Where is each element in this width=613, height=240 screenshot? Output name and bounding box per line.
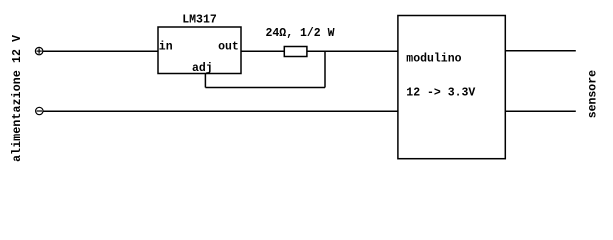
wire: adj pin drop [204, 74, 206, 88]
regulator U1 LM317 body [158, 27, 241, 74]
wire: resistor R1 to modulino [307, 50, 398, 52]
terminal - negative supply [36, 107, 43, 114]
svg-text:sensore: sensore [587, 70, 600, 118]
wire bottom: - terminal to modulino [43, 110, 398, 112]
wire: adj horizontal run [205, 87, 325, 89]
wire right top: modulino to sensore [505, 50, 576, 52]
svg-text:out: out [218, 40, 239, 53]
wire: riser to output node [324, 51, 326, 87]
svg-text:12 -> 3.3V: 12 -> 3.3V [406, 87, 475, 100]
terminal + positive supply [35, 47, 42, 54]
svg-text:LM317: LM317 [182, 14, 217, 27]
resistor R1 body [284, 47, 307, 57]
wire: LM317 out to resistor R1 [241, 50, 284, 52]
wire right bottom: modulino to sensore [505, 110, 576, 112]
svg-text:in: in [159, 40, 173, 53]
svg-text:24Ω, 1/2 W: 24Ω, 1/2 W [266, 27, 335, 40]
svg-text:alimentazione 12 V: alimentazione 12 V [11, 35, 24, 162]
svg-text:modulino: modulino [406, 52, 461, 65]
svg-text:adj: adj [192, 62, 213, 75]
wire: + terminal to LM317 in [43, 50, 158, 52]
module U2 modulino body [398, 16, 505, 159]
